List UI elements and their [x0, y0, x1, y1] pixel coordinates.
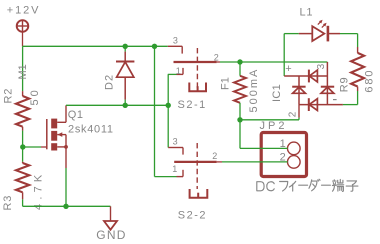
svg-text:IC1: IC1 [271, 84, 283, 102]
svg-text:L1: L1 [300, 6, 314, 18]
svg-text:R9: R9 [338, 77, 350, 93]
switch S2-2 contact bar [174, 161, 216, 163]
svg-text:2: 2 [212, 151, 217, 161]
rectifier IC1 top diode [309, 70, 318, 83]
wire S2-1 pin1 vertical [167, 74, 169, 147]
svg-text:2sk4011: 2sk4011 [68, 123, 114, 135]
node source-ground junction [63, 204, 68, 209]
connector JP2 box [261, 133, 306, 177]
wire R3 to ground rail [22, 199, 24, 206]
switch S2-1 pin 3 [168, 46, 182, 53]
resistor R9 [351, 47, 364, 91]
svg-text:+12V: +12V [7, 5, 41, 17]
fuse F1 [234, 62, 246, 120]
label D2 [104, 74, 116, 90]
diode D2 [116, 46, 134, 105]
value 2sk4011 [68, 123, 114, 135]
label JP2 [260, 120, 288, 132]
resistor R2 [16, 91, 29, 131]
value 680 [364, 69, 376, 93]
wire +12V pin stub [22, 32, 24, 47]
node drain-S2 junction [166, 103, 171, 108]
pin label 3 IC1 [316, 63, 327, 69]
svg-text:1: 1 [172, 164, 177, 174]
label F1 [219, 77, 231, 90]
label M1 [17, 64, 29, 79]
resistor R3 [16, 162, 29, 200]
led L1 arrows [318, 20, 327, 28]
wire F1 to bridge pin2 [240, 119, 299, 121]
led L1 [299, 26, 340, 42]
transistor Q1 substrate arrow [57, 132, 66, 137]
label +12V [7, 5, 41, 17]
value 50 [29, 87, 41, 105]
wire bridge plus vertical [283, 34, 285, 76]
rectifier IC1 left rail [298, 76, 300, 105]
value 4.7K [33, 171, 45, 210]
transistor Q1 gate bar [46, 119, 48, 149]
transistor Q1 gate pin [41, 146, 47, 148]
pin label 2 IC1 [288, 111, 299, 117]
wire LED left [284, 33, 299, 35]
label DC feeder terminal (Japanese) [257, 179, 358, 191]
rectifier IC1 right rail [326, 62, 328, 105]
svg-text:D2: D2 [104, 74, 116, 90]
connector JP2 pin 2 circle [288, 156, 301, 169]
switch S2-1 pin 1 [177, 68, 184, 75]
pin number 2 JP2 [280, 152, 286, 164]
wire gate wire [23, 146, 41, 148]
svg-text:Q1: Q1 [68, 109, 84, 121]
pin number 1 S2-1 [176, 66, 181, 76]
transistor Q1 drain lead [57, 105, 66, 122]
label R3 [2, 195, 14, 211]
svg-text:3: 3 [316, 63, 327, 69]
rectifier IC1 pin2 lead [298, 105, 300, 118]
ground GND symbol [104, 221, 117, 230]
rectifier IC1 right diode [321, 87, 334, 94]
rectifier IC1 top rail [284, 75, 327, 77]
pin number 1 JP2 [280, 138, 286, 150]
label IC1 [271, 84, 283, 102]
switch S2-2 pin 2 stub [217, 161, 222, 163]
wire +12V rail horizontal [23, 45, 168, 47]
node F1 top junction [237, 59, 242, 64]
pin number 2 S2-1 [214, 52, 219, 62]
switch S2-2 pin 1 [177, 170, 184, 177]
svg-text:680: 680 [364, 69, 376, 93]
pin label + IC1 [285, 63, 291, 75]
switch S2-1 contact bar [174, 61, 217, 63]
wire drain net horizontal [66, 104, 168, 106]
wire R2 to gate node [22, 131, 24, 147]
wire rail to R2 [22, 46, 24, 91]
wire bridge pin2 to net [298, 118, 300, 120]
wire to JP2 pin1 [240, 120, 288, 149]
svg-text:R2: R2 [3, 88, 15, 104]
switch S2-1 bracket [189, 83, 206, 92]
label R2 [3, 88, 15, 104]
svg-text:3: 3 [173, 137, 178, 147]
pin number 1 S2-2 [172, 164, 177, 174]
wire LED to R9 [340, 33, 358, 35]
node F1 bottom junction [237, 117, 242, 122]
connector JP2 pin 1 circle [288, 142, 301, 155]
switch S2-1 pin 2 stub [217, 61, 220, 63]
svg-text:+: + [285, 63, 291, 75]
label Q1 [68, 109, 84, 121]
wire S2-2 pin1 horizontal [155, 176, 177, 178]
label L1 [300, 6, 314, 18]
pin label minus IC1 [333, 99, 337, 101]
switch S2-2 pin 3 [168, 148, 183, 155]
node rail-D2 junction [123, 44, 128, 49]
svg-text:S2-1: S2-1 [178, 99, 207, 111]
svg-text:4.7K: 4.7K [33, 171, 45, 210]
label R9 [338, 77, 350, 93]
pin number 3 S2-2 [173, 137, 178, 147]
svg-text:50: 50 [29, 87, 41, 105]
wire R9 top [357, 34, 359, 47]
transistor Q1 source lead [57, 135, 68, 168]
svg-text:R3: R3 [2, 195, 14, 211]
svg-text:M1: M1 [17, 64, 29, 79]
wire rail to S2-2 pin1 vertical [154, 46, 156, 176]
svg-text:S2-2: S2-2 [178, 210, 207, 222]
wire gate node to R3 [22, 147, 24, 162]
pin number 2 S2-2 [212, 151, 217, 161]
svg-text:JP2: JP2 [260, 120, 288, 132]
label S2-2 [178, 210, 207, 222]
rectifier IC1 left diode [292, 87, 305, 94]
wire switched +12V horizontal [220, 61, 327, 63]
switch S2-1 dashed actuator line [196, 48, 198, 89]
label S2-1 [178, 99, 207, 111]
wire source to ground [65, 168, 67, 206]
rectifier IC1 bottom diode [309, 98, 318, 111]
supply +12V symbol [17, 20, 29, 32]
wire S2-2 to JP2 pin2 [222, 161, 288, 163]
svg-text:GND: GND [96, 228, 126, 242]
transistor Q1 channel bars [51, 119, 57, 151]
wire R9 to bridge minus [343, 91, 358, 105]
svg-text:2: 2 [288, 111, 299, 117]
pin number 3 S2-1 [173, 36, 178, 46]
node drain-D2 junction [123, 103, 128, 108]
svg-text:2: 2 [214, 52, 219, 62]
svg-text:3: 3 [173, 36, 178, 46]
svg-text:1: 1 [176, 66, 181, 76]
switch S2-2 dashed actuator line [196, 143, 198, 189]
wire S2-1 pin1 link [168, 73, 177, 75]
rectifier IC1 bottom rail [299, 104, 343, 106]
wire ground rail [23, 205, 111, 207]
wire ground drop [110, 206, 112, 221]
node rail-S2-2 junction [152, 44, 157, 49]
label GND [96, 228, 126, 242]
node gate junction [20, 144, 25, 149]
svg-text:500mA: 500mA [248, 68, 260, 113]
switch S2-2 bracket [190, 189, 208, 198]
value 500mA [248, 68, 260, 113]
svg-text:F1: F1 [219, 77, 231, 90]
